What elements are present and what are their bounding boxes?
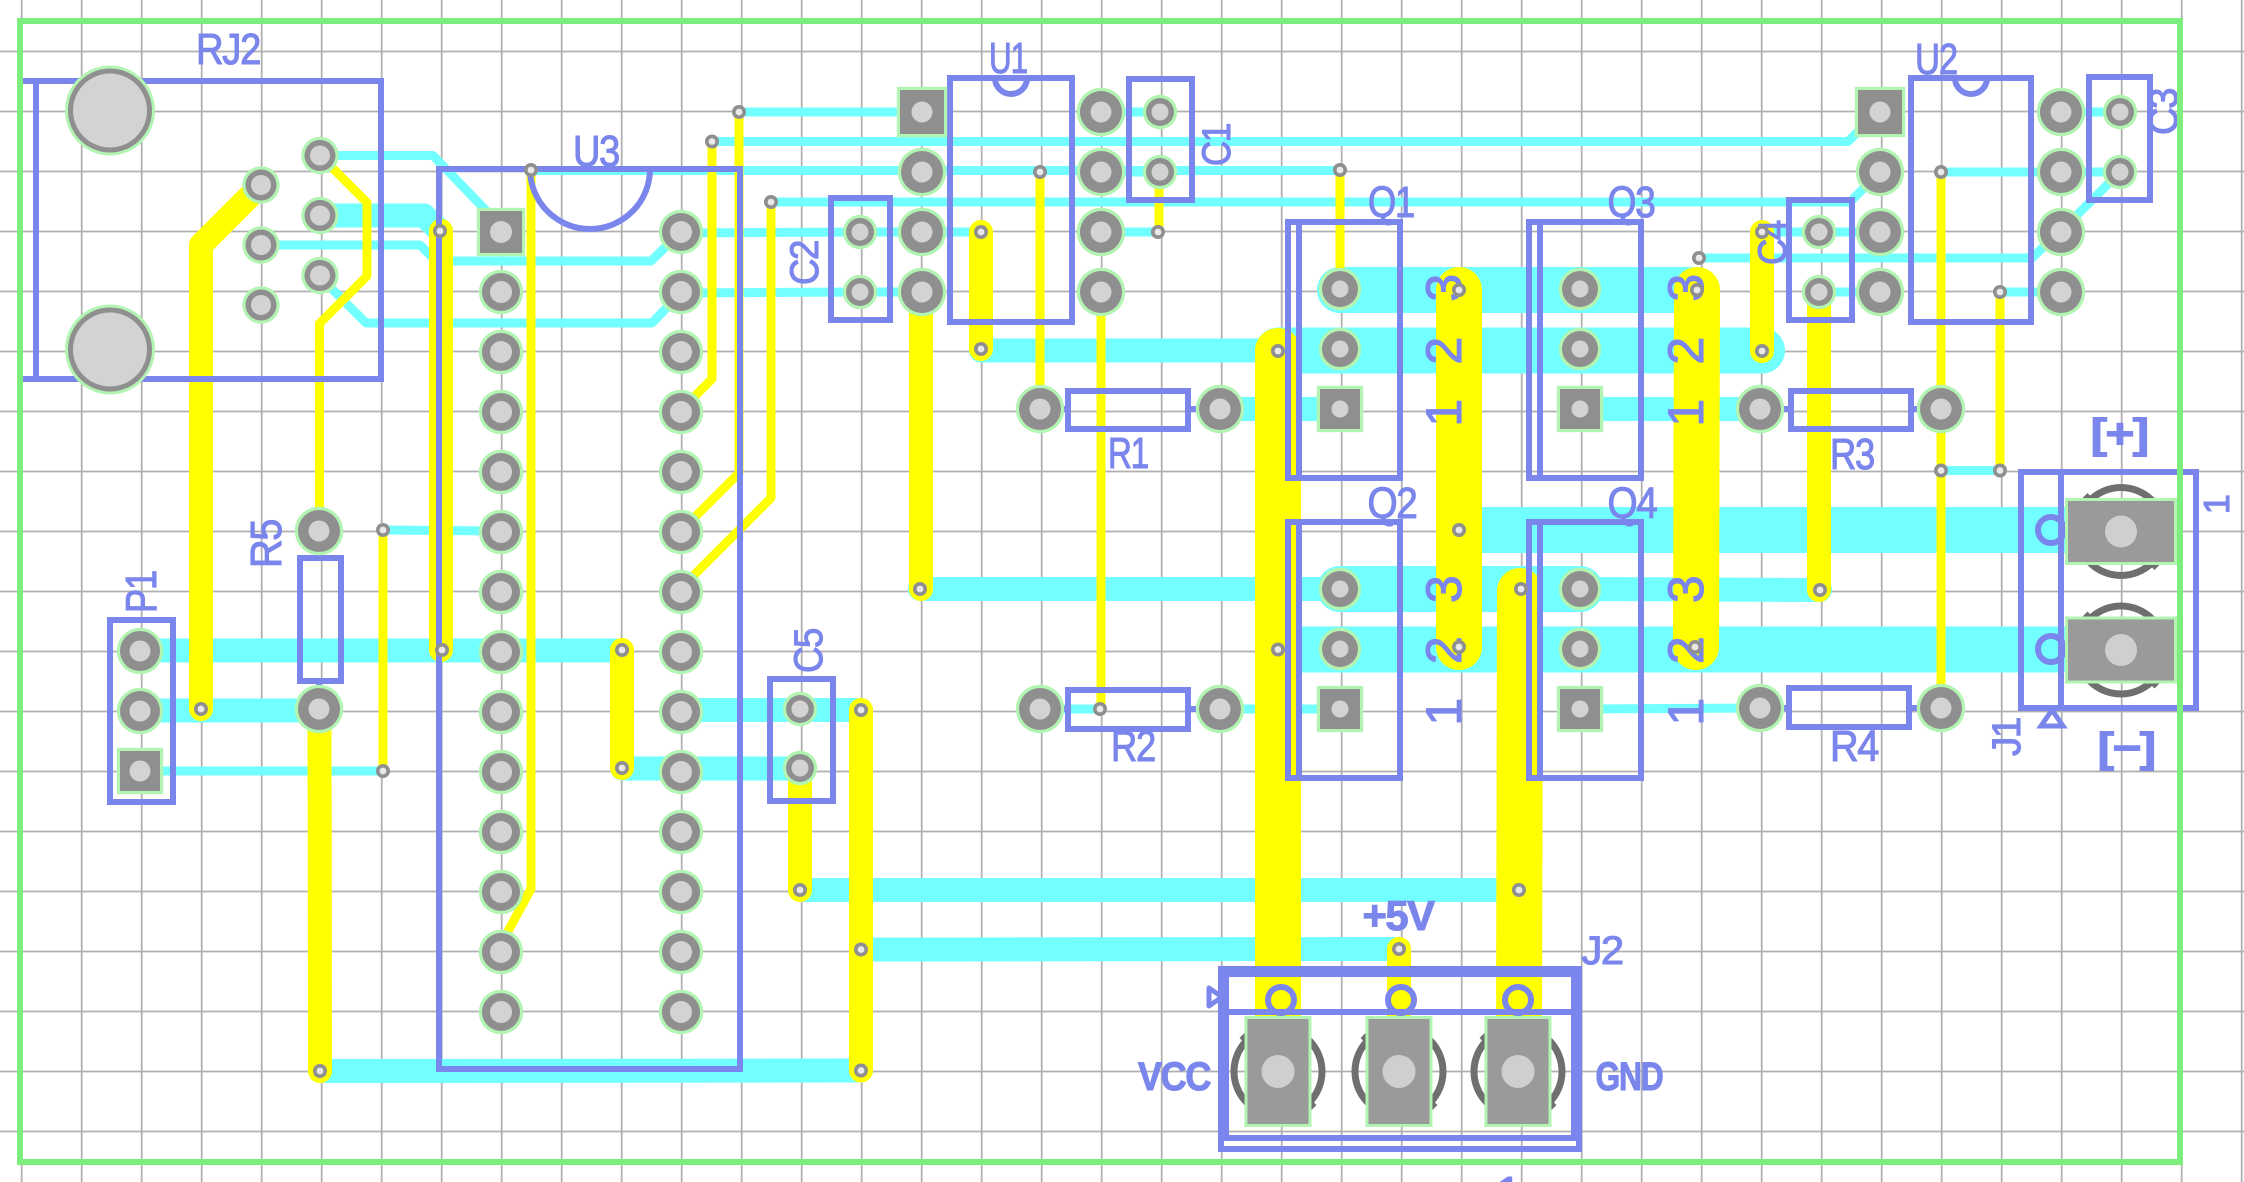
svg-text:U3: U3 <box>573 127 619 176</box>
terminal J1 screw1 <box>2077 488 2165 576</box>
wire via622 to via622b (fat yellow) <box>610 650 634 768</box>
capacitor C2 outline <box>831 198 890 320</box>
label Q4 pin2 <box>1658 638 1714 664</box>
capacitor C2 pads <box>843 215 877 309</box>
resistor R4 outline <box>1760 688 1941 727</box>
wire via1459 power yellow column <box>1436 290 1482 647</box>
wire via2000 to via2000b (yellow) <box>1996 292 2005 471</box>
transistor Q4 pads <box>1557 568 1603 732</box>
svg-text:VCC: VCC <box>1138 1055 1211 1099</box>
svg-text:J1: J1 <box>1985 718 2029 756</box>
terminal J2 screw3 <box>1474 1028 1562 1116</box>
wire via800 to via1519 (cyan y890) <box>800 878 1519 902</box>
terminal J2 outline <box>1209 969 1579 1149</box>
terminal J1 pad2 [-] <box>2065 617 2177 684</box>
wire via1340 to Q1 pad3 (yellow) <box>1336 170 1345 289</box>
label R2 <box>1111 722 1155 771</box>
svg-text:R5: R5 <box>242 520 291 568</box>
connector RJ2 mounting hole 2 <box>65 305 155 395</box>
wire U1 pad6 to via1158 (cyan) <box>1101 228 1158 237</box>
terminal J2 pad1 VCC <box>1245 1016 1312 1127</box>
resistor R2 pads <box>1016 685 1244 733</box>
transistor Q1 outline <box>1288 222 1400 478</box>
label [-] <box>2098 724 2155 771</box>
wire via1762 to C4 pad1 to U2 pad3 (cyan) <box>1762 228 1880 237</box>
wire via1941 to via2000 crossover (cyan) <box>1941 466 2000 475</box>
wire via861 column (fat yellow) <box>849 710 873 1071</box>
terminal J2 pad3 GND <box>1485 1016 1552 1127</box>
wire via440 to via442 (fat yellow x441) <box>429 231 453 650</box>
label C2 <box>783 241 827 285</box>
connector RJ2 outline <box>20 81 381 379</box>
wire net [+] power cyan y530 to J1 terminal1 <box>1459 507 2110 553</box>
transistor Q2 pads <box>1317 568 1363 732</box>
wire via622 to U3 right pad to C5 pad2 (cyan y768) <box>622 757 800 781</box>
wire U1 pad5 to via920 (fat yellow) <box>909 292 933 589</box>
svg-text:P1: P1 <box>117 571 166 613</box>
capacitor C4 pads <box>1802 215 1836 309</box>
wire via1941 to U2 pad5 to C3 pad2 (cyan y172) <box>1941 168 2120 177</box>
capacitor C4 outline <box>1789 200 1852 320</box>
label U2 <box>1915 35 1957 84</box>
wire U1 pin8 to C1 pad1 (cyan) <box>1101 108 1160 117</box>
capacitor C3 pads <box>2103 95 2137 189</box>
transistor Q3 outline <box>1529 222 1641 478</box>
svg-text:Q4: Q4 <box>1608 479 1658 528</box>
label Q2 pin3 <box>1416 577 1472 603</box>
wire via920 to Q2 pad3 (cyan y589) <box>920 577 1340 601</box>
wire via771 to U3 pad row591 (yellow) <box>681 202 771 588</box>
label Q1 pin1 <box>1416 400 1472 426</box>
connector RJ2 mounting hole 1 <box>65 66 155 156</box>
label Q1 pin3 <box>1416 275 1472 301</box>
label Q1 pin2 <box>1416 338 1472 364</box>
svg-text:1: 1 <box>1416 400 1472 426</box>
label Q2 pin2 <box>1416 638 1472 664</box>
svg-text:1: 1 <box>1658 699 1714 725</box>
label P1 <box>117 571 166 613</box>
label [+] <box>2091 410 2148 457</box>
wire via1521 power yellow to J2 terminal2... x1521 <box>1519 591 1520 1040</box>
svg-text:C1: C1 <box>1195 124 1239 166</box>
vias <box>194 105 2007 1078</box>
label Q1 <box>1368 178 1414 227</box>
svg-text:R2: R2 <box>1111 722 1155 771</box>
label RJ2 <box>196 25 260 74</box>
wire C4 pad2 to via1820 (yellow) <box>1807 292 1831 590</box>
wire C1 pad2 to via1158 (yellow) <box>1155 172 1164 232</box>
label Q4 <box>1608 479 1658 528</box>
svg-text:+5V: +5V <box>1363 892 1435 939</box>
svg-text:Q3: Q3 <box>1608 178 1655 227</box>
wire via383 to U3 pad row y531 (cyan) <box>383 530 501 531</box>
svg-text:U1: U1 <box>989 34 1027 83</box>
label Q4 pin1 <box>1658 699 1714 725</box>
wire net +5V via1399 to J2 terminal2 (yellow) <box>1387 949 1411 1040</box>
label Q3 pin2 <box>1658 338 1714 364</box>
IC U1 outline <box>950 78 1072 322</box>
label C5 <box>787 629 831 673</box>
resistor R4 pads <box>1736 684 1965 732</box>
resistor R1 pads <box>1016 385 1244 433</box>
wire RJ2 pad2 to via A (wide cyan) <box>320 216 440 232</box>
label R4 <box>1830 722 1879 771</box>
svg-text:2: 2 <box>1658 338 1714 364</box>
wire U1 pad pin5r to via1100 (yellow) <box>1097 292 1106 709</box>
IC U3 pads <box>477 208 703 1034</box>
terminal J2 pad2 +5V <box>1366 1016 1433 1127</box>
svg-text:C2: C2 <box>783 241 827 285</box>
svg-text:[−]: [−] <box>2098 724 2155 771</box>
transistor Q1 pads <box>1317 268 1363 432</box>
label R5 <box>242 520 291 568</box>
header P1 outline <box>110 620 173 802</box>
wire C5 pad2 to via800 (yellow) <box>788 768 812 890</box>
svg-text:R4: R4 <box>1830 722 1879 771</box>
resistor R3 outline <box>1760 391 1941 429</box>
wire via712 to U2 pin1 (long cyan y141) <box>712 112 1878 142</box>
svg-text:U2: U2 <box>1915 35 1957 84</box>
label J1 <box>1985 718 2029 756</box>
wire R1 pad2 to Q1 pin1 (cyan) <box>1220 397 1340 421</box>
svg-text:1: 1 <box>1416 699 1472 725</box>
label J2 <box>1582 929 1623 973</box>
wire via712 to U3 pad row410 (yellow) <box>681 142 712 411</box>
resistor R2 outline <box>1040 690 1220 729</box>
wire RJ2 pad6 to U3 right pad row2 / C2 / U1 (cyan) <box>320 277 922 323</box>
wire net VCC Q1 column power yellow x1278 <box>1255 351 1301 1040</box>
wire via1040 to R1 pad1 (yellow) <box>1036 172 1045 409</box>
label C1 <box>1195 124 1239 166</box>
label J1 pin1 <box>2196 495 2237 514</box>
label U1 <box>989 34 1027 83</box>
header P1 pads <box>117 628 163 794</box>
wire RJ2 pad3 to via201 (fat yellow) <box>201 185 261 709</box>
svg-text:1: 1 <box>1658 400 1714 426</box>
resistor R1 outline <box>1040 391 1220 429</box>
wire via739 to U1 pin1 (cyan y112) <box>739 108 922 117</box>
wire R2 pad2 to Q2 pin1 (cyan) <box>1220 705 1340 714</box>
wire via1278 to via1762 (power cyan y351) <box>1278 328 1762 374</box>
label VCC <box>1138 1055 1211 1099</box>
wire RJ2 pad1 to U3 pin1 (cyan) <box>320 156 500 226</box>
IC U2 pads <box>1855 87 2085 316</box>
wire via739 to U3 pad row531 (yellow) <box>681 112 739 531</box>
svg-text:2: 2 <box>1658 638 1714 664</box>
resistor R5 pads <box>295 507 343 733</box>
capacitor C5 outline <box>770 679 833 801</box>
wire via1699 to U2 pad6 (cyan y258) <box>1699 230 2061 258</box>
transistor Q4 outline <box>1529 522 1641 778</box>
svg-text:R1: R1 <box>1108 429 1148 478</box>
wire via2000 to U2 pad5b (cyan) <box>2000 288 2061 297</box>
svg-text:Q2: Q2 <box>1368 479 1417 528</box>
label +5V <box>1363 892 1435 939</box>
wire C3 pad2 to U2 pad6 (cyan diagonal) <box>2061 172 2120 231</box>
IC U3 outline <box>439 169 740 1069</box>
svg-text:1: 1 <box>2196 495 2237 514</box>
wire P1 pad3 to via383 (cyan y771) <box>140 767 383 776</box>
IC U1 pads <box>897 87 1125 316</box>
svg-text:J2: J2 <box>1582 929 1623 973</box>
svg-text:2: 2 <box>1416 338 1472 364</box>
capacitor C1 pads <box>1143 95 1177 189</box>
label R3 <box>1830 430 1874 479</box>
label GND <box>1596 1055 1663 1099</box>
label R1 <box>1108 429 1148 478</box>
wire via1762 to via1762b (yellow) <box>1750 232 1774 351</box>
svg-text:[+]: [+] <box>2091 410 2148 457</box>
label Q3 <box>1608 178 1655 227</box>
resistor R3 pads <box>1736 385 1965 433</box>
transistor Q3 pads <box>1557 268 1603 432</box>
wire via531 down to U3 pad (yellow x531) <box>501 170 531 944</box>
svg-text:C5: C5 <box>787 629 831 673</box>
wire via981 top to via981 bottom (fat yellow) <box>969 232 993 349</box>
wire Q4 pin1 to R4 pad1 (cyan) <box>1580 708 1760 709</box>
wire Q1 pad3 to Q3 pad3 to via1697 (power cyan y290) <box>1340 267 1697 313</box>
svg-text:R3: R3 <box>1830 430 1874 479</box>
svg-text:3: 3 <box>1658 577 1714 603</box>
terminal J1 pad1 [+] <box>2065 498 2177 565</box>
wire P1 pad2 to R5 pad2 (cyan y711) <box>140 699 319 723</box>
wire net +5V via861 to via1399 (cyan y949) <box>861 937 1399 962</box>
label Q4 pin3 <box>1658 577 1714 603</box>
svg-text:3: 3 <box>1416 577 1472 603</box>
svg-text:RJ2: RJ2 <box>196 25 260 74</box>
wire Q2 pad3 to Q4 pad3 (power cyan y589) <box>1340 566 1580 612</box>
connector RJ2 pads <box>242 137 338 324</box>
svg-text:1: 1 <box>1496 1167 1520 1182</box>
svg-text:GND: GND <box>1596 1055 1663 1099</box>
terminal J2 screw2 <box>1355 1028 1443 1116</box>
label Q2 pin1 <box>1416 699 1472 725</box>
wire net [-] power cyan y649 to J1 terminal2 <box>1278 627 2110 673</box>
wire RJ2 pad1 to R5 pad1 (yellow) <box>320 156 368 532</box>
wire U3 right pad to C5 pad1 to via861 (cyan y710) <box>681 698 861 722</box>
capacitor C5 pads <box>783 692 817 785</box>
terminal J1 outline <box>2021 472 2196 726</box>
wire via771 to U2 pad2 (long cyan y202) <box>771 172 1880 202</box>
wire Q3 pin1 to R3 pad1 (cyan) <box>1580 397 1760 421</box>
wire via383 to via383b (yellow) <box>379 530 388 771</box>
wire via1941 through R3 pad2 to R4 pad2 (yellow) <box>1937 172 1946 708</box>
label Q3 pin1 <box>1658 400 1714 426</box>
label J2 pin1 <box>1496 1167 1520 1182</box>
wire via1100 to R2 pad1 (cyan) <box>1040 705 1100 714</box>
svg-text:Q1: Q1 <box>1368 178 1414 227</box>
svg-text:3: 3 <box>1658 275 1714 301</box>
wire P1 pad1 to via442 to via622 (cyan y650) <box>140 639 622 663</box>
transistor Q2 outline <box>1288 522 1400 778</box>
label Q3 pin3 <box>1658 275 1714 301</box>
IC U2 outline <box>1911 78 2031 322</box>
wire via531 to via1340 (long cyan y170) <box>531 166 1340 175</box>
label C4 <box>1751 220 1795 265</box>
wire RJ2 pad4 to U3 right pad row1 / C2 / U1 (cyan) <box>261 232 978 261</box>
terminal J1 screw2 <box>2077 606 2165 694</box>
capacitor C3 outline <box>2089 77 2150 200</box>
label U3 <box>573 127 619 176</box>
wire U2 pad8 to C3 pad1 (cyan) <box>2061 108 2120 117</box>
wire Q4 pad3 to via1820 (cyan y589) <box>1580 589 1820 590</box>
wire C4 pad2 to U2 pad4 (cyan) <box>1819 288 1880 297</box>
label C3 <box>2142 89 2186 135</box>
capacitor C1 outline <box>1129 79 1192 200</box>
resistor R5 outline <box>300 531 341 709</box>
terminal J2 screw1 <box>1234 1028 1322 1116</box>
wire R5 pad2 to via320 (fat yellow) <box>308 709 333 1071</box>
wire via981 wide cyan y351 to via1278 <box>981 339 1278 363</box>
wire via320 to via861 (cyan y1071) <box>320 1059 861 1084</box>
wire via1697 power yellow column <box>1696 290 1697 647</box>
label Q2 <box>1368 479 1417 528</box>
wire U1 pad7 to C1 pad2 (cyan) <box>1101 168 1160 177</box>
